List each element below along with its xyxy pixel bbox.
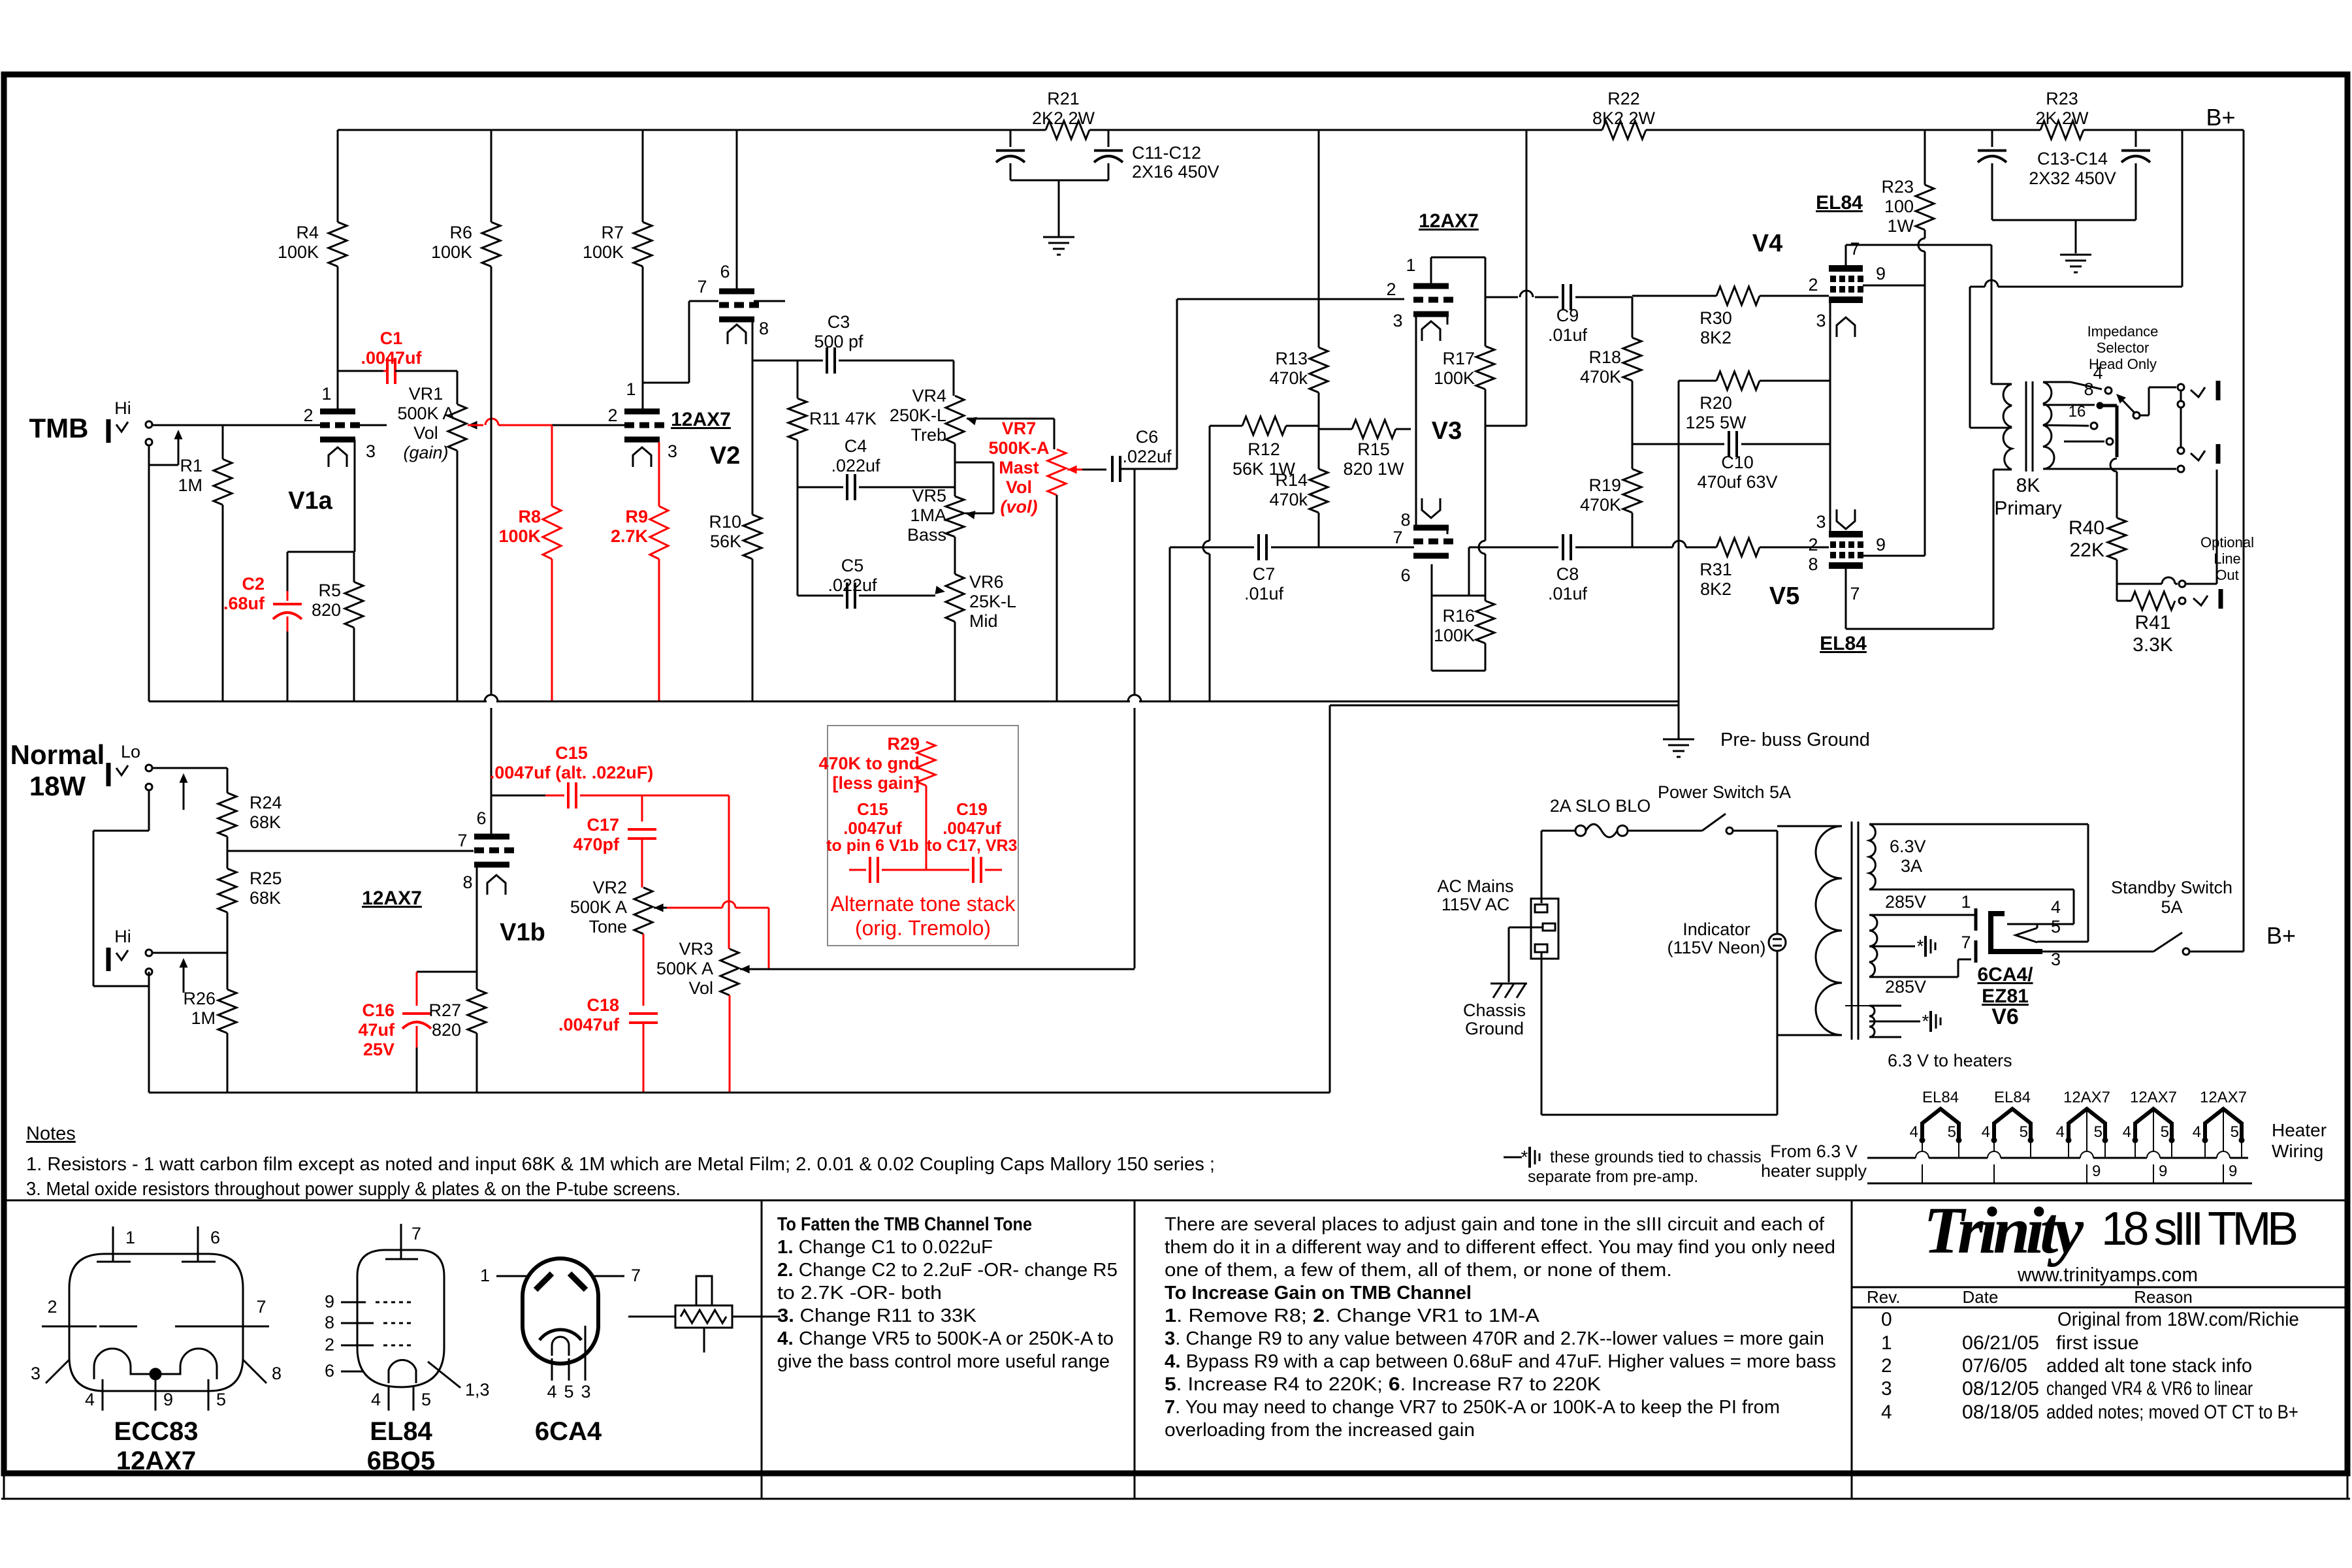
svg-text:Notes: Notes [26, 1123, 76, 1144]
label R30 [1700, 308, 1732, 347]
svg-text:Ground: Ground [1465, 1019, 1524, 1038]
svg-text:R31: R31 [1700, 560, 1732, 579]
table rev row 0 [1881, 1309, 2299, 1330]
svg-text:.0047uf: .0047uf [843, 818, 902, 838]
tube V1b triode [474, 837, 514, 895]
svg-text:V1b: V1b [500, 919, 545, 946]
svg-text:68K: 68K [250, 812, 281, 832]
svg-text:C19: C19 [956, 799, 988, 819]
capacitor C19 alt [926, 857, 1002, 883]
potentiometer VR5 [946, 496, 964, 574]
pinout ECC83 pins top [97, 1226, 216, 1262]
svg-text:R23: R23 [1881, 177, 1914, 197]
label VR6 [969, 572, 1016, 631]
svg-text:added notes; moved OT CT to B+: added notes; moved OT CT to B+ [2046, 1401, 2298, 1423]
wire indicator drop [1777, 831, 1779, 1115]
wire fuse left [1541, 831, 1575, 903]
wire B+ right vertical [2243, 130, 2245, 952]
svg-text:give the bass control more use: give the bass control more useful range [777, 1351, 1110, 1372]
svg-text:8: 8 [325, 1313, 334, 1332]
svg-text:R30: R30 [1700, 308, 1732, 328]
resistor R13 [1269, 130, 1328, 426]
capacitor C11 [996, 130, 1025, 180]
label fatten 2 [777, 1260, 1118, 1281]
transformer PT sec 285V [1869, 915, 1877, 977]
label gain intro 1 [1165, 1214, 1825, 1235]
capacitor C9 line [1485, 284, 1632, 310]
label 12AX7 V2 [671, 409, 740, 470]
svg-text:9: 9 [163, 1390, 173, 1409]
svg-text:R1: R1 [180, 456, 202, 475]
pinout EL84 heater [389, 1360, 416, 1383]
svg-text:25V: 25V [363, 1040, 395, 1059]
svg-text:C15: C15 [555, 743, 588, 763]
potentiometer VR7 [1048, 449, 1066, 701]
bottom row divider col3 [1851, 1200, 1853, 1499]
bottom extra row line [1, 1498, 2350, 1500]
label gain 7 [1165, 1397, 1780, 1418]
svg-text:8K2: 8K2 [1700, 328, 1732, 347]
svg-text:4. Change VR5 to 500K-A or 25: 4. Change VR5 to 500K-A or 250K-A to [777, 1328, 1114, 1349]
svg-text:(vol): (vol) [1001, 497, 1038, 517]
svg-text:R13: R13 [1275, 349, 1308, 368]
label heater wiring [2272, 1120, 2327, 1161]
capacitor C17 [628, 795, 656, 888]
svg-text:2: 2 [1386, 280, 1396, 299]
wire OT tap 16 [2043, 423, 2097, 429]
svg-text:6CA4: 6CA4 [535, 1417, 602, 1446]
wire PT primary leads [1777, 826, 1842, 1035]
svg-text:2: 2 [1881, 1355, 1892, 1377]
arrow TMB jack switch [174, 430, 183, 465]
switch standby [2153, 933, 2244, 955]
wire R29 alt stem [926, 786, 927, 870]
svg-text:500K A: 500K A [397, 404, 454, 423]
svg-text:[less gain]: [less gain] [832, 773, 920, 793]
resistor R26 [183, 953, 236, 1093]
wire heater bus 2 [1867, 1183, 2252, 1185]
heater tent EL84 b [1982, 1089, 2033, 1183]
label V2b pins [697, 262, 769, 338]
tube V5 pentode [1829, 509, 1863, 566]
jack speaker 1 [2178, 381, 2218, 408]
switch power [1628, 814, 1777, 834]
wire V2b plate [736, 130, 738, 289]
tube V1a triode [320, 411, 360, 467]
svg-text:8K2: 8K2 [1700, 579, 1732, 599]
label V4 pins [1808, 239, 1886, 330]
pinout ECC83 grids [42, 1326, 269, 1328]
label EL84 6BQ5 [367, 1417, 436, 1475]
pinout ECC83 center dot [150, 1369, 161, 1379]
heater tent EL84 a [1910, 1089, 1961, 1183]
svg-text:R12: R12 [1248, 440, 1280, 459]
label VR3 [656, 939, 713, 998]
svg-text:1. Change C1 to 0.022uF: 1. Change C1 to 0.022uF [777, 1237, 993, 1258]
wire V6 plate1 [1971, 914, 1976, 916]
svg-text:From 6.3 V: From 6.3 V [1770, 1142, 1858, 1161]
bottom row divider col1 [761, 1200, 763, 1499]
wire V1b grid line [227, 837, 474, 869]
ground 285V CT [1917, 936, 1935, 957]
svg-text:7: 7 [631, 1266, 641, 1285]
svg-text:7: 7 [411, 1224, 421, 1243]
label gain intro 3 [1165, 1260, 1672, 1281]
svg-text:R16: R16 [1442, 606, 1475, 626]
selector arrow [2116, 387, 2176, 419]
capacitor C14 [2121, 130, 2150, 220]
svg-text:4: 4 [1910, 1123, 1918, 1141]
svg-text:Mast: Mast [999, 458, 1039, 477]
svg-text:R18: R18 [1588, 347, 1621, 367]
svg-text:R21: R21 [1047, 89, 1080, 108]
wire C16 R27 top [417, 971, 477, 973]
svg-text:(gain): (gain) [403, 443, 448, 462]
svg-text:Optional: Optional [2200, 534, 2254, 551]
wire heater CT [1869, 1021, 1920, 1023]
wire OT tap 8 [2043, 403, 2117, 518]
svg-text:1. Resistors - 1 watt carbon f: 1. Resistors - 1 watt carbon film except… [26, 1154, 1215, 1175]
wire jack sleeve drop [2216, 470, 2218, 584]
svg-text:changed VR4 & VR6 to linear: changed VR4 & VR6 to linear [2046, 1378, 2253, 1400]
label C17 [573, 815, 620, 854]
wire VR4 wiper [967, 417, 1054, 450]
svg-text:1: 1 [1406, 255, 1415, 275]
svg-text:12AX7: 12AX7 [362, 888, 422, 909]
capacitor C4 [797, 474, 955, 500]
table rev row 4 [1881, 1401, 2298, 1423]
svg-text:5: 5 [2161, 1123, 2169, 1141]
svg-text:9: 9 [2092, 1162, 2101, 1180]
svg-text:500 pf: 500 pf [814, 332, 863, 351]
svg-text:6: 6 [325, 1361, 334, 1381]
heater tent 12AX7 a [2056, 1089, 2110, 1183]
resistor R30 body [1632, 287, 1829, 305]
svg-text:Hi: Hi [114, 398, 131, 418]
svg-text:470K: 470K [1580, 367, 1621, 387]
wire rect heater [2037, 924, 2038, 928]
wire screens line [1846, 245, 1991, 384]
svg-text:VR4: VR4 [912, 386, 946, 406]
capacitor C12 [1094, 130, 1123, 180]
svg-text:R15: R15 [1357, 440, 1390, 459]
svg-text:9: 9 [325, 1292, 334, 1311]
wire C8 to plate node [1432, 547, 1485, 596]
svg-text:18W: 18W [29, 771, 86, 801]
transformer OT secondary [2043, 382, 2054, 469]
label increase gain title [1165, 1283, 1472, 1304]
svg-text:C18: C18 [587, 995, 619, 1015]
resistor R6 [431, 130, 500, 266]
wire top B+ bus [338, 129, 2244, 131]
wire R40 bottom [2117, 577, 2217, 587]
symbol grounds tied [1504, 1147, 1539, 1168]
resistor R23 100 1W [1916, 130, 1934, 285]
svg-text:8: 8 [2084, 379, 2093, 399]
svg-text:47uf: 47uf [358, 1020, 395, 1040]
svg-text:R10: R10 [709, 512, 741, 532]
label V3 pins upper [1386, 255, 1415, 330]
svg-text:2: 2 [303, 406, 313, 425]
label C2 [223, 574, 265, 613]
label C8 [1548, 564, 1588, 603]
label gain intro 2 [1165, 1237, 1835, 1258]
bottom panel divider [7, 1200, 2345, 1202]
svg-text:100K: 100K [498, 526, 541, 546]
svg-text:3. Change R11 to 33K: 3. Change R11 to 33K [777, 1305, 977, 1326]
svg-text:EL84: EL84 [1816, 192, 1863, 214]
wire plug ground [1509, 927, 1543, 982]
svg-text:1. Remove R8; 2. Change VR: 1. Remove R8; 2. Change VR1 to 1M-A [1165, 1305, 1540, 1326]
jack line out [2193, 589, 2221, 609]
heater tent 12AX7 b [2123, 1089, 2177, 1183]
svg-text:2: 2 [47, 1297, 57, 1317]
svg-text:68K: 68K [250, 888, 281, 908]
wire heater bus 1 [1867, 1157, 2248, 1159]
label power switch [1658, 782, 1791, 802]
label V5 pins [1808, 512, 1886, 603]
svg-text:2K 2W: 2K 2W [2035, 108, 2089, 128]
svg-text:*: * [1521, 1147, 1528, 1167]
svg-text:R20: R20 [1700, 393, 1732, 413]
label gain 1 [1165, 1305, 1540, 1326]
svg-text:4: 4 [2056, 1123, 2065, 1141]
resistor R9 [650, 442, 668, 701]
svg-text:R40: R40 [2069, 517, 2104, 539]
label gain 3 [1165, 1328, 1824, 1349]
label EL84 V4 [1816, 192, 1863, 214]
wire C7 to ground [1169, 547, 1171, 701]
svg-text:R27: R27 [428, 1000, 461, 1020]
wire heater ends [1869, 1006, 1901, 1037]
svg-text:C8: C8 [1556, 564, 1579, 584]
svg-text:100K: 100K [1434, 368, 1475, 388]
box alternate tone stack [828, 726, 1018, 946]
svg-text:4: 4 [2093, 363, 2102, 383]
wire OT tap aux [2064, 438, 2113, 445]
svg-text:C13-C14: C13-C14 [2037, 149, 2108, 168]
svg-text:9: 9 [1876, 535, 1886, 554]
svg-text:2: 2 [1808, 275, 1818, 295]
wire V3 plate pin1 [1431, 257, 1485, 283]
label C19 alt [927, 799, 1018, 855]
svg-text:2A SLO BLO: 2A SLO BLO [1550, 796, 1651, 816]
label fatten 3 [777, 1305, 977, 1326]
resistor R40 [2108, 518, 2126, 584]
arrow Hi jack switch [180, 958, 188, 993]
label V1b [500, 919, 545, 946]
svg-text:TMB: TMB [29, 413, 89, 443]
indicator neon [1769, 934, 1786, 951]
label notes title [26, 1123, 76, 1144]
wire V4 pin7 plate [1845, 245, 1847, 266]
wire V3 cathode hooks [1447, 315, 1449, 534]
svg-text:.01uf: .01uf [1244, 584, 1284, 603]
label Lo [121, 742, 140, 761]
potentiometer VR6 [935, 574, 965, 701]
wire jack tie [2180, 391, 2182, 447]
label V1a [288, 487, 332, 515]
label tap 16 [2069, 403, 2086, 421]
wire R6 to V1b [491, 266, 492, 837]
svg-text:C17: C17 [587, 815, 619, 835]
label website [2017, 1263, 2198, 1286]
wire OT primary top [1991, 383, 2012, 385]
label 8K primary [1994, 475, 2061, 519]
capacitor C5 [797, 487, 935, 609]
svg-text:3: 3 [1816, 311, 1826, 330]
label grounds tied [1528, 1148, 1762, 1186]
svg-text:Alternate tone stack: Alternate tone stack [831, 892, 1016, 916]
svg-text:C11-C12: C11-C12 [1132, 143, 1201, 163]
svg-text:3: 3 [1816, 512, 1826, 532]
svg-text:4: 4 [1982, 1123, 1990, 1141]
transformer PT core [1852, 822, 1858, 1040]
svg-text:06/21/05: 06/21/05 [1962, 1332, 2039, 1354]
svg-text:AC Mains: AC Mains [1437, 876, 1513, 896]
svg-text:16: 16 [2069, 403, 2086, 421]
svg-text:100K: 100K [1434, 626, 1475, 645]
label EL84 V5 [1820, 633, 1867, 654]
resistor R8 [543, 425, 561, 701]
svg-text:125 5W: 125 5W [1685, 413, 1747, 432]
svg-text:1M: 1M [178, 475, 202, 495]
label R29 [818, 734, 920, 793]
svg-text:Tone: Tone [588, 917, 627, 936]
svg-text:1M: 1M [191, 1008, 216, 1028]
svg-text:3A: 3A [1901, 856, 1922, 876]
svg-text:7. You may need to change VR7: 7. You may need to change VR7 to 250K-A … [1165, 1397, 1780, 1418]
svg-text:6BQ5: 6BQ5 [367, 1447, 436, 1475]
pinout ECC83 grid dashes [99, 1326, 212, 1328]
svg-text:8: 8 [1808, 554, 1818, 574]
label R20 [1685, 393, 1747, 432]
pinout 6CA4 cathode [540, 1330, 581, 1356]
wire V1a grid lead [355, 424, 387, 426]
pinout 6CA4 pin labels [547, 1382, 590, 1401]
svg-text:EL84: EL84 [1820, 633, 1867, 654]
wire R18 R19 node [1632, 381, 1634, 469]
svg-text:1: 1 [626, 379, 636, 399]
pinout 6CA4 pins side [480, 1266, 641, 1285]
svg-text:2: 2 [325, 1335, 334, 1354]
svg-text:2K2 2W: 2K2 2W [1032, 108, 1095, 128]
label to fatten title [777, 1214, 1032, 1235]
svg-text:.68uf: .68uf [223, 594, 265, 613]
tube V2 triode b cathode follower [719, 291, 759, 344]
svg-text:Pre- buss Ground: Pre- buss Ground [1720, 729, 1870, 750]
svg-text:08/18/05: 08/18/05 [1962, 1401, 2039, 1423]
pinout ECC83 labels mid [47, 1297, 266, 1317]
label C1 [361, 328, 422, 368]
jack speaker 2 [2178, 444, 2218, 464]
svg-text:EL84: EL84 [1994, 1089, 2031, 1106]
svg-text:Heater: Heater [2272, 1120, 2327, 1140]
capacitor C2 [273, 552, 302, 701]
svg-text:Vol: Vol [1006, 477, 1032, 497]
svg-text:C15: C15 [857, 799, 888, 819]
resistor R21 [1032, 89, 1095, 139]
label 6CA4 EZ81 V6 [1977, 964, 2033, 1029]
svg-text:6: 6 [210, 1228, 220, 1247]
svg-text:(orig. Tremolo): (orig. Tremolo) [855, 916, 991, 940]
wire 285V pin7 [1869, 959, 1971, 977]
label V5 [1769, 583, 1799, 610]
svg-text:115V AC: 115V AC [1442, 895, 1510, 914]
svg-text:5. Increase R4 to 220K; 6.: 5. Increase R4 to 220K; 6. Increase R7 t… [1165, 1374, 1602, 1395]
svg-text:0: 0 [1881, 1309, 1892, 1330]
svg-text:*: * [1917, 936, 1924, 956]
wire VR2 wiper [654, 901, 769, 968]
svg-text:one of them, a few of them, al: one of them, a few of them, all of them,… [1165, 1260, 1672, 1281]
svg-text:5: 5 [1948, 1123, 1956, 1141]
svg-text:Vol: Vol [413, 423, 438, 443]
svg-text:V5: V5 [1769, 583, 1799, 610]
ground heater CT [1922, 1011, 1941, 1032]
svg-text:Hi: Hi [114, 927, 131, 946]
label C13-C14 [2029, 149, 2116, 188]
pinout ECC83 bottom pins [85, 1379, 226, 1411]
wire Lo tip [152, 767, 227, 769]
svg-text:first issue: first issue [2056, 1332, 2139, 1354]
label fatten 4 [777, 1328, 1114, 1349]
svg-text:3: 3 [581, 1382, 590, 1401]
svg-text:3: 3 [1881, 1378, 1892, 1400]
capacitor C10 [1632, 431, 1830, 457]
svg-text:1: 1 [321, 384, 331, 404]
svg-text:6: 6 [720, 262, 730, 281]
wire VR1 wiper [468, 419, 625, 430]
wire Hi tip [152, 952, 227, 954]
svg-text:Rev.: Rev. [1867, 1287, 1901, 1307]
label R17 [1434, 349, 1475, 388]
label gain 4 [1165, 1351, 1836, 1372]
svg-text:7: 7 [1961, 933, 1971, 952]
tube V3 triode upper [1413, 286, 1453, 341]
svg-text:100: 100 [1884, 197, 1914, 216]
fuse [1575, 824, 1628, 837]
svg-text:.022uf: .022uf [831, 456, 880, 475]
svg-text:V2: V2 [710, 442, 740, 470]
resistor R7 [583, 130, 652, 266]
svg-text:V6: V6 [1991, 1004, 2019, 1029]
svg-text:8: 8 [1400, 510, 1410, 530]
svg-text:7: 7 [256, 1297, 266, 1317]
svg-text:500K A: 500K A [570, 897, 627, 917]
wire bus to V3 plates [1485, 130, 1526, 426]
jack TMB Hi input [108, 419, 152, 445]
svg-text:12AX7: 12AX7 [671, 409, 731, 430]
svg-text:4: 4 [1881, 1401, 1892, 1423]
svg-text:separate from pre-amp.: separate from pre-amp. [1528, 1168, 1698, 1186]
plug AC mains [1531, 899, 1558, 959]
svg-text:Treb: Treb [910, 425, 946, 445]
wire plug bottom [1541, 952, 1777, 1115]
svg-text:C10: C10 [1721, 453, 1754, 472]
label gain 5 [1165, 1374, 1602, 1395]
svg-text:Wiring: Wiring [2272, 1141, 2323, 1161]
wire V2a plate [642, 266, 644, 409]
resistor R31 [1632, 538, 1829, 556]
wire V1b cathode [476, 866, 478, 972]
arrow Lo jack switch [180, 773, 188, 810]
label ECC83 12AX7 [114, 1417, 199, 1475]
svg-text:Normal: Normal [10, 739, 105, 770]
wire V5 pin7 plate [1846, 470, 1993, 629]
bottom row divider col2 [1134, 1200, 1136, 1499]
svg-text:R8: R8 [518, 507, 541, 526]
svg-text:overloading from the increased: overloading from the increased gain [1165, 1420, 1475, 1441]
